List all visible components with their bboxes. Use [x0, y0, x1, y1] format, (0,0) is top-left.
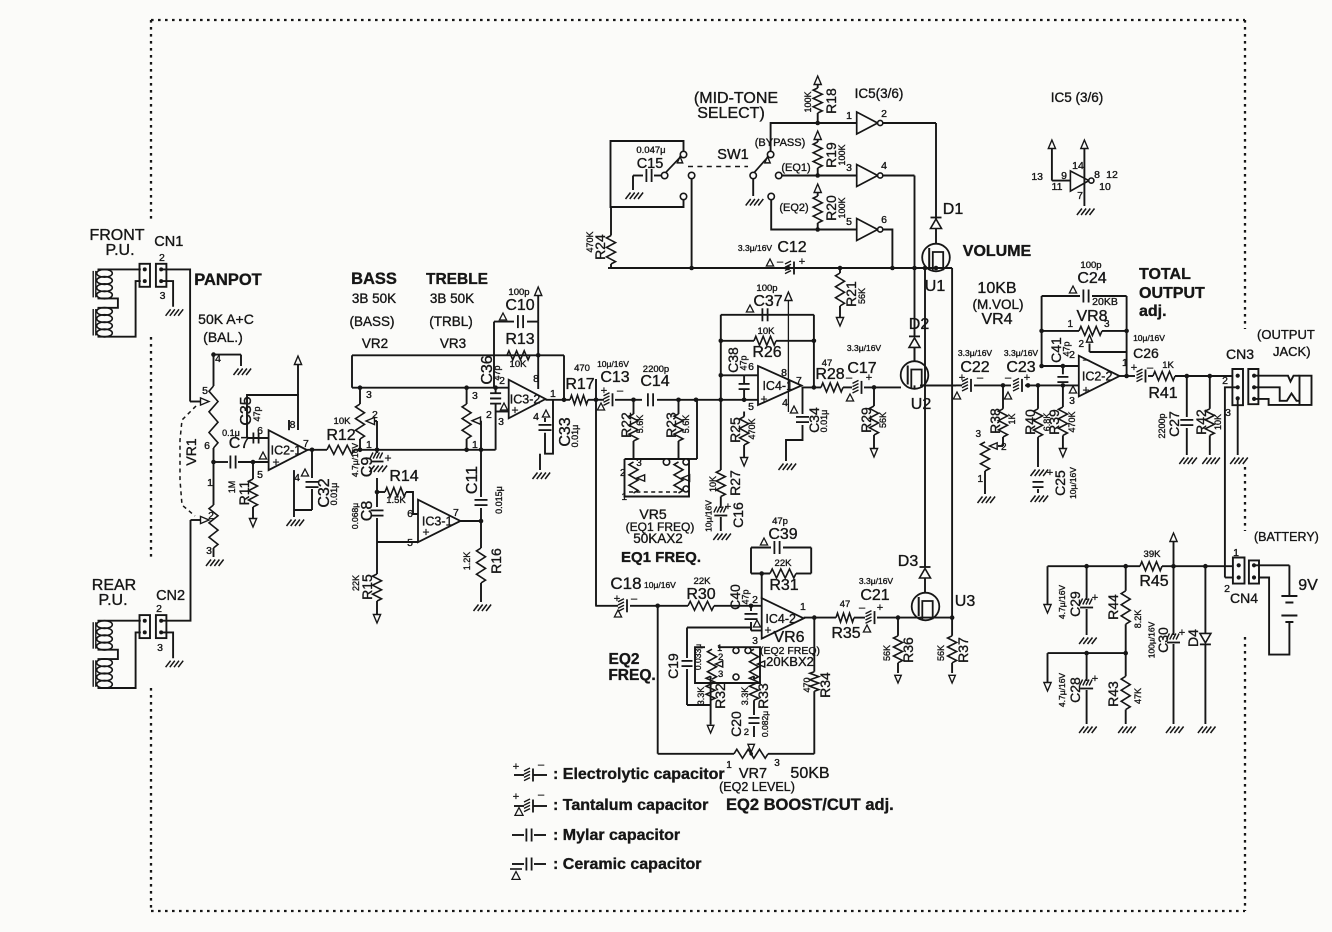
- resistor R35 47: [836, 613, 854, 622]
- capacitor C28 4.7u/16V: [1086, 653, 1088, 681]
- svg-text:0.015μ: 0.015μ: [494, 486, 504, 514]
- wire rail R12 to VR3: [354, 449, 496, 451]
- svg-text:C10: C10: [505, 297, 534, 314]
- supply arrow C10: [537, 295, 539, 322]
- svg-text:0.01μ: 0.01μ: [819, 410, 829, 433]
- svg-text:C15: C15: [637, 156, 664, 172]
- svg-text:(EQ2 LEVEL): (EQ2 LEVEL): [719, 780, 795, 794]
- wire rear coil step: [98, 650, 118, 659]
- ground VR4: [978, 497, 983, 504]
- wire SW1 common to ground: [752, 179, 754, 196]
- svg-text:U3: U3: [955, 593, 976, 610]
- svg-text:+: +: [764, 623, 771, 637]
- svg-text:+: +: [272, 455, 279, 469]
- ground IC2-1/C32: [287, 520, 292, 527]
- wire CN2 pin3 to ground: [161, 632, 173, 658]
- resistor R25 470K: [743, 412, 745, 417]
- svg-text:C26: C26: [1133, 345, 1159, 361]
- svg-text:PANPOT: PANPOT: [194, 271, 262, 289]
- svg-text:JACK): JACK): [1273, 344, 1311, 359]
- supply arrow +V: [1173, 542, 1175, 566]
- resistor R24 470K: [607, 236, 616, 265]
- svg-text:3: 3: [206, 545, 212, 557]
- svg-text:VR6: VR6: [773, 629, 804, 646]
- svg-text:R26: R26: [752, 344, 781, 361]
- svg-text:3: 3: [366, 389, 372, 401]
- svg-text:: Electrolytic capacitor: : Electrolytic capacitor: [553, 766, 725, 783]
- ground CN2 pin3: [166, 661, 171, 668]
- svg-text:R11: R11: [236, 480, 252, 505]
- wiper VR5b: [682, 475, 690, 481]
- svg-text:2: 2: [881, 108, 887, 120]
- svg-text:R16: R16: [488, 548, 504, 574]
- svg-text:C12: C12: [777, 239, 806, 256]
- ground D4: [1198, 727, 1203, 734]
- capacitor C20 0.082u: [753, 700, 755, 715]
- resistor R16 1.2K: [477, 548, 486, 583]
- wire IC3-1 output to C11 node: [460, 520, 481, 522]
- svg-text:(TRBL): (TRBL): [429, 314, 473, 329]
- svg-text:+: +: [959, 372, 965, 384]
- wire U2 drain up to inverter2 line: [914, 347, 916, 361]
- svg-text:R43: R43: [1105, 681, 1121, 707]
- svg-text:3: 3: [975, 429, 981, 440]
- svg-text:3: 3: [718, 669, 723, 680]
- wire IC4-2 output: [804, 617, 836, 619]
- resistor R37 56K: [951, 618, 953, 636]
- inverter IC5-2: [815, 173, 820, 178]
- switch lever C15: [666, 158, 680, 172]
- svg-text:3: 3: [472, 390, 478, 402]
- svg-text:+: +: [513, 761, 519, 773]
- svg-text:CN4: CN4: [1230, 590, 1258, 606]
- spare inverter IC5 pins 9-8: [1048, 140, 1055, 149]
- svg-text:39K: 39K: [1144, 549, 1162, 560]
- resistor R44 8.2K: [1125, 566, 1127, 591]
- svg-text:10μ/16V: 10μ/16V: [644, 580, 676, 590]
- svg-text:OUTPUT: OUTPUT: [1139, 285, 1205, 302]
- switch section on C15: [661, 172, 667, 178]
- svg-text:–: –: [1147, 362, 1154, 374]
- svg-text:R23: R23: [663, 412, 679, 438]
- svg-text:10K: 10K: [758, 326, 776, 337]
- wiper VR5a: [637, 475, 645, 481]
- resistor R26 10K: [721, 340, 754, 342]
- svg-text:–: –: [1005, 372, 1012, 384]
- svg-text:3: 3: [774, 758, 780, 769]
- svg-text:470: 470: [574, 363, 590, 374]
- svg-text:13: 13: [1031, 171, 1043, 183]
- svg-text:C29: C29: [1067, 591, 1083, 617]
- ground C34: [779, 464, 784, 471]
- resistor R21 56K: [839, 268, 841, 273]
- svg-text:2: 2: [372, 409, 378, 421]
- svg-text:BASS: BASS: [351, 270, 397, 288]
- svg-text:R29: R29: [858, 407, 874, 433]
- svg-text:100μ/16V: 100μ/16V: [1147, 621, 1157, 658]
- svg-text:4.7μ/16V: 4.7μ/16V: [1057, 585, 1067, 620]
- svg-text:(EQ2): (EQ2): [779, 202, 808, 214]
- svg-text:R13: R13: [505, 331, 534, 348]
- svg-text:IC5 (3/6): IC5 (3/6): [1051, 90, 1104, 105]
- svg-text:2: 2: [744, 727, 749, 738]
- ground C29: [1079, 638, 1084, 645]
- svg-text:470K: 470K: [1067, 411, 1077, 432]
- svg-text:0.082μ: 0.082μ: [760, 711, 770, 737]
- svg-text:R14: R14: [389, 468, 418, 485]
- svg-text:SW1: SW1: [717, 147, 748, 163]
- svg-text:4: 4: [782, 397, 788, 409]
- svg-text:56K: 56K: [882, 645, 892, 661]
- wire EQ2 bottom rail: [658, 753, 734, 755]
- svg-text:10μ/16V: 10μ/16V: [1133, 333, 1165, 343]
- svg-text:FREQ.: FREQ.: [608, 667, 655, 684]
- svg-text:5: 5: [257, 469, 263, 481]
- svg-text:10K: 10K: [334, 416, 352, 427]
- ground CN3 pin3: [1230, 458, 1235, 465]
- wire CN1 pin3 to ground: [161, 281, 173, 307]
- JFET switch U1: [922, 244, 950, 272]
- svg-text:–: –: [538, 759, 545, 771]
- svg-text:2: 2: [620, 468, 626, 479]
- capacitor C33 0.01u: [544, 418, 546, 422]
- svg-text:U2: U2: [911, 396, 932, 413]
- wire rail left end: [1047, 566, 1049, 604]
- resistor R27 10K: [720, 400, 722, 470]
- svg-text:C16: C16: [730, 502, 746, 528]
- svg-text:4.7μ/16V: 4.7μ/16V: [350, 443, 360, 478]
- resistor R43 47K: [1125, 653, 1127, 676]
- svg-text:50K A+C: 50K A+C: [198, 311, 254, 327]
- wire main select rail y=268: [611, 267, 952, 269]
- svg-text:R27: R27: [727, 470, 743, 496]
- gang dashed VR5: [629, 491, 677, 493]
- resistor R31 22K: [751, 573, 770, 575]
- svg-text:2: 2: [159, 252, 165, 264]
- wire CN2 pin2 up to VR1 lower wiper: [161, 520, 190, 621]
- svg-text:4.7μ/16V: 4.7μ/16V: [1057, 673, 1067, 708]
- svg-text:–: –: [859, 602, 866, 614]
- svg-text:12: 12: [1106, 169, 1118, 181]
- wiper VR7 arrow: [748, 744, 754, 752]
- svg-text:6: 6: [881, 214, 887, 226]
- svg-text:3B 50K: 3B 50K: [352, 291, 396, 306]
- wiper VR3: [472, 417, 481, 424]
- svg-text:0.068μ: 0.068μ: [350, 503, 360, 529]
- svg-text:C18: C18: [610, 574, 641, 593]
- svg-text:VR4: VR4: [981, 311, 1012, 328]
- svg-text:+: +: [866, 372, 872, 384]
- svg-text:+: +: [511, 403, 518, 417]
- svg-text:R42: R42: [1193, 409, 1209, 435]
- svg-text:470K: 470K: [585, 231, 595, 252]
- svg-text:6.8K: 6.8K: [1042, 413, 1052, 432]
- svg-text:+: +: [384, 451, 391, 465]
- wire D3 column: [924, 268, 926, 567]
- wire inverter3 out: [882, 230, 892, 269]
- wire CN1 pin2 to panpot: [161, 269, 190, 401]
- gang dashed link VR1: [180, 406, 196, 516]
- svg-text:1: 1: [366, 439, 372, 451]
- svg-text:CN2: CN2: [156, 588, 185, 604]
- svg-text:3B 50K: 3B 50K: [430, 291, 474, 306]
- ground CN1 pin3: [166, 309, 171, 316]
- svg-text:P.U.: P.U.: [105, 242, 134, 259]
- ground VR1 pin4: [234, 369, 239, 376]
- ground R40: [1031, 470, 1036, 477]
- svg-text:C14: C14: [640, 373, 669, 390]
- svg-text:5: 5: [846, 216, 852, 228]
- potentiometer VR4 10KB: [981, 442, 990, 471]
- wiper VR8: [1086, 335, 1092, 342]
- wire EQ2 main line: [655, 604, 660, 609]
- svg-text:47p: 47p: [772, 516, 788, 527]
- svg-text:3: 3: [752, 635, 758, 647]
- svg-text:–: –: [617, 385, 624, 397]
- wiper VR1-b: [201, 516, 210, 523]
- svg-text:(BAL.): (BAL.): [203, 329, 243, 345]
- svg-text:: Ceramic capacitor: : Ceramic capacitor: [553, 856, 702, 873]
- svg-text:+: +: [614, 593, 620, 605]
- svg-text:+: +: [799, 256, 805, 268]
- diode D4: [1204, 566, 1206, 633]
- diode D2: [909, 335, 920, 337]
- svg-text:CN3: CN3: [1226, 346, 1254, 362]
- ground C25: [1031, 496, 1036, 503]
- resistor R36 56K: [897, 618, 899, 636]
- svg-text:8.2K: 8.2K: [1133, 610, 1143, 629]
- svg-text:–: –: [777, 256, 784, 268]
- svg-text:3: 3: [1225, 407, 1231, 419]
- svg-text:+: +: [1131, 362, 1137, 374]
- svg-text:C37: C37: [753, 293, 782, 310]
- svg-text:C27: C27: [1166, 411, 1182, 437]
- wire coil to CN1: [98, 268, 141, 270]
- wire inverter2 out to U2: [882, 175, 915, 177]
- svg-text:3.3μ/16V: 3.3μ/16V: [958, 348, 993, 358]
- svg-text:7: 7: [1077, 190, 1083, 202]
- svg-text:8: 8: [1094, 169, 1100, 181]
- svg-text:D1: D1: [943, 201, 964, 218]
- wire input line to IC4-1: [721, 399, 758, 401]
- svg-text:8: 8: [290, 419, 296, 431]
- svg-text:56K: 56K: [936, 645, 946, 661]
- potentiometer VR3 3B50K: [466, 388, 468, 404]
- svg-text:5: 5: [407, 537, 413, 549]
- resistor R11 1M: [251, 460, 256, 465]
- wire IC3-1 pin5: [377, 541, 418, 543]
- resistor R23 5.6K: [678, 400, 680, 414]
- resistor R32 3.3K: [710, 676, 712, 705]
- svg-text:22K: 22K: [351, 575, 361, 591]
- svg-text:–: –: [538, 789, 545, 801]
- wire to IC4-2 + input: [751, 630, 762, 632]
- capacitor C16 10u/16V: [720, 497, 722, 509]
- border frame (dotted): [151, 19, 1245, 21]
- resistor R42 10K: [1209, 376, 1211, 409]
- svg-text:R45: R45: [1139, 573, 1168, 590]
- ground SW1: [746, 199, 751, 206]
- wire VR5 box to main line: [696, 400, 698, 459]
- output jack symbol: [1254, 376, 1299, 382]
- svg-text:C24: C24: [1077, 270, 1106, 287]
- svg-text:P.U.: P.U.: [98, 592, 127, 609]
- op-amp IC2-2: [1079, 356, 1120, 397]
- svg-text:–: –: [1083, 354, 1090, 366]
- svg-text:TOTAL: TOTAL: [1139, 266, 1191, 283]
- svg-text:+: +: [422, 525, 429, 539]
- mech dashed link SW1-C15: [688, 166, 748, 168]
- svg-text:EQ2: EQ2: [608, 651, 639, 668]
- wire IC2-2 pin2 line: [1042, 365, 1079, 367]
- svg-text:TREBLE: TREBLE: [426, 271, 488, 288]
- svg-text:0.01μ: 0.01μ: [329, 483, 339, 506]
- wire IC2-1 pin4 to ground: [293, 470, 295, 510]
- svg-text:7: 7: [303, 438, 309, 450]
- op-amp IC2-1: [269, 430, 308, 470]
- resistor R38 1K: [1002, 385, 1004, 408]
- svg-text:47p: 47p: [741, 589, 751, 604]
- svg-text:0.033μ: 0.033μ: [693, 644, 703, 670]
- svg-text:1M: 1M: [227, 481, 237, 494]
- svg-text:C13: C13: [600, 369, 629, 386]
- wiper VR6b: [758, 661, 765, 667]
- resistor R15 22K: [376, 542, 378, 574]
- svg-text:R33: R33: [755, 683, 771, 709]
- wire U3 line: [912, 617, 952, 619]
- wire C15 common down to main node line: [691, 179, 693, 268]
- svg-text:1: 1: [846, 110, 852, 122]
- capacitor C32 0.01u: [310, 448, 315, 453]
- wire U3 column right: [951, 268, 953, 618]
- potentiometer VR2 3B50K: [359, 388, 361, 404]
- potentiometer VR6 dual (EQ2 FREQ) 20KBX2: [695, 647, 760, 683]
- resistor R14 1.5K: [375, 490, 380, 495]
- wiper VR1-a: [201, 398, 210, 405]
- potentiometer VR5 dual (EQ1 FREQ) 50KAX2: [625, 458, 690, 460]
- supply line dash-dot IC4-1: [787, 300, 789, 412]
- wire bypass contact to inverter1 input: [771, 123, 857, 151]
- svg-text:1: 1: [977, 474, 983, 485]
- svg-text:C28: C28: [1067, 677, 1083, 703]
- svg-text:2: 2: [752, 594, 758, 606]
- wiper VR4: [990, 443, 998, 449]
- svg-text:3.3μ/16V: 3.3μ/16V: [859, 576, 894, 586]
- ground C27: [1179, 458, 1184, 465]
- svg-text:EQ2 BOOST/CUT adj.: EQ2 BOOST/CUT adj.: [726, 796, 894, 814]
- svg-text:0.01μ: 0.01μ: [570, 425, 580, 448]
- svg-text:R44: R44: [1105, 594, 1121, 620]
- wire coil return: [98, 281, 141, 337]
- svg-text:R15: R15: [359, 574, 375, 600]
- svg-text:3.3K: 3.3K: [740, 687, 750, 706]
- svg-text:R31: R31: [769, 577, 798, 594]
- svg-text:R37: R37: [955, 637, 971, 663]
- resistor R12 10K: [327, 445, 354, 454]
- svg-text:C25: C25: [1052, 470, 1068, 496]
- svg-text:2: 2: [1222, 375, 1228, 387]
- svg-text:10KB: 10KB: [977, 280, 1016, 297]
- wire IC4-1 pin6 line: [744, 374, 758, 376]
- svg-text:1: 1: [550, 388, 556, 400]
- svg-text:C11: C11: [464, 466, 481, 494]
- wire rear coil to CN2: [98, 620, 141, 622]
- svg-text:VR8: VR8: [1076, 308, 1107, 325]
- svg-text:: Mylar capacitor: : Mylar capacitor: [553, 827, 680, 844]
- resistor R28 47: [821, 383, 843, 392]
- wire feedback rail y=355: [352, 354, 564, 356]
- svg-text:9V: 9V: [1298, 577, 1318, 594]
- svg-text:+: +: [760, 392, 767, 406]
- capacitor C27 2200p: [1186, 376, 1188, 417]
- svg-text:47: 47: [840, 599, 851, 610]
- svg-text:R30: R30: [686, 586, 715, 603]
- svg-text:1K: 1K: [1162, 360, 1174, 371]
- svg-text:5: 5: [748, 401, 754, 413]
- svg-text:20KB: 20KB: [1092, 296, 1118, 308]
- svg-text:7: 7: [453, 507, 459, 519]
- svg-text:470: 470: [802, 677, 812, 692]
- ground IC5 pin7: [1077, 209, 1082, 216]
- svg-text:3.3μ/16V: 3.3μ/16V: [1004, 348, 1039, 358]
- svg-text:3.3K: 3.3K: [696, 687, 706, 706]
- wire CN3 pin3 ground: [1237, 398, 1239, 455]
- svg-text:+: +: [1092, 592, 1098, 604]
- ground C30: [1166, 727, 1171, 734]
- svg-text:8: 8: [533, 373, 539, 385]
- svg-text:D4: D4: [1185, 629, 1201, 647]
- capacitor C19 0.033u: [686, 628, 688, 659]
- svg-text:(BATTERY): (BATTERY): [1254, 530, 1319, 544]
- svg-text:(BASS): (BASS): [349, 314, 394, 329]
- svg-text:C19: C19: [665, 653, 681, 679]
- svg-text:10μ/16V: 10μ/16V: [704, 500, 714, 532]
- svg-text:1: 1: [726, 760, 732, 771]
- svg-text:14: 14: [1072, 160, 1084, 172]
- svg-text:3: 3: [157, 642, 163, 654]
- svg-text:6: 6: [204, 440, 210, 452]
- svg-text:(M.VOL): (M.VOL): [972, 297, 1023, 312]
- capacitor C9 4.7u/16V: [376, 450, 378, 453]
- svg-text:C39: C39: [768, 526, 797, 543]
- wire R13/C10 verticals: [537, 322, 539, 389]
- svg-text:2: 2: [156, 603, 162, 615]
- resistor R33 3.3K: [753, 676, 755, 679]
- resistor R18 100K: [814, 76, 821, 85]
- svg-text:CN1: CN1: [154, 234, 183, 250]
- resistor R34 470: [813, 618, 815, 672]
- svg-text:2200p: 2200p: [643, 364, 669, 375]
- svg-text:3.3μ/16V: 3.3μ/16V: [738, 243, 773, 253]
- svg-text:3: 3: [1104, 319, 1110, 330]
- svg-text:R32: R32: [712, 683, 728, 709]
- svg-text:3: 3: [636, 458, 642, 469]
- svg-text:+: +: [1092, 673, 1098, 685]
- ground R43: [1118, 727, 1123, 734]
- resistor R41 1K: [1153, 372, 1175, 381]
- svg-text:6: 6: [407, 508, 413, 520]
- svg-text:47p: 47p: [1062, 341, 1072, 356]
- wire IC2-1 pin8 supply: [288, 420, 290, 430]
- resistor R29 56K: [873, 387, 875, 406]
- svg-text:100K: 100K: [803, 91, 813, 112]
- wire IC4-1 output: [802, 386, 822, 388]
- potentiometer VR7 50KB (EQ2 LEVEL): [734, 749, 768, 758]
- svg-text:1.5K: 1.5K: [386, 495, 406, 506]
- svg-text:(OUTPUT: (OUTPUT: [1257, 327, 1315, 342]
- svg-text:22K: 22K: [775, 558, 793, 569]
- capacitor C11 0.015u: [480, 450, 482, 497]
